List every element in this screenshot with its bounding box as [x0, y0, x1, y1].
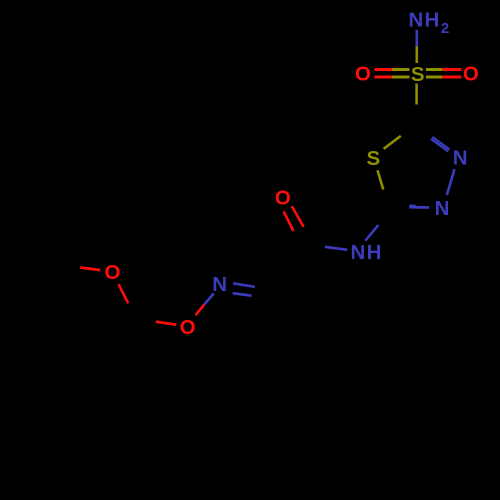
- bond N4-N3: [447, 169, 455, 195]
- svg-text:N: N: [453, 147, 468, 170]
- bond N-O ether (N half): [204, 293, 214, 304]
- bond NH2-S (S half): [415, 47, 418, 64]
- svg-text:H: H: [367, 241, 382, 264]
- bond S=O right (S halves): [426, 68, 442, 71]
- bond CH2-O1 (O half): [119, 284, 129, 303]
- bond S1-C5 (S half): [384, 136, 401, 149]
- svg-text:N: N: [212, 273, 227, 296]
- svg-text:O: O: [180, 316, 196, 339]
- label NH amide: [350, 241, 381, 264]
- bond C2-NH (N half): [365, 225, 378, 241]
- svg-text:O: O: [275, 187, 291, 210]
- bond O2-CH2 (O half): [156, 322, 177, 325]
- svg-text:O: O: [463, 62, 479, 85]
- bond C2-S1 (S half): [378, 170, 384, 189]
- svg-text:2: 2: [441, 20, 449, 37]
- svg-text:O: O: [105, 261, 121, 284]
- svg-text:S: S: [366, 147, 380, 170]
- bond S-C5 (S half): [415, 84, 418, 105]
- svg-text:N: N: [408, 9, 423, 32]
- bond N-O ether (O half): [196, 305, 205, 316]
- bond N3=C2 (N half, double): [409, 206, 429, 209]
- svg-text:N: N: [350, 241, 365, 264]
- bond NH-C carbonyl (N half): [325, 247, 347, 250]
- svg-text:O: O: [355, 62, 371, 85]
- bond C=O carbonyl (red, double): [292, 206, 304, 227]
- bond S=O right (red halves): [442, 68, 461, 71]
- bond S=O left (S halves): [392, 68, 410, 71]
- bond C=N oxime (N half, second line): [233, 293, 252, 296]
- bond NH2-S (N half): [415, 30, 418, 47]
- bond S=O left (red halves): [375, 68, 393, 71]
- svg-text:S: S: [411, 63, 425, 86]
- svg-text:H: H: [424, 9, 439, 32]
- label NH2 sulfonamide: [408, 9, 449, 38]
- bond C5=N4 (N half, double): [432, 137, 449, 150]
- svg-text:N: N: [435, 197, 450, 220]
- bond C=N oxime (N half, main): [233, 283, 255, 287]
- bond O1-CH3 (O half): [80, 268, 100, 271]
